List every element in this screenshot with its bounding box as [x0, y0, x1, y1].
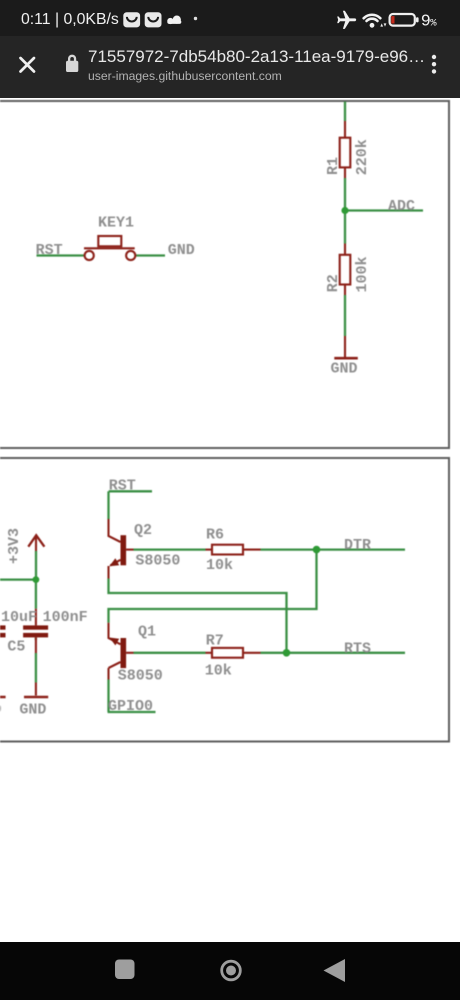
svg-text:R2: R2 [325, 274, 342, 292]
svg-text:Q2: Q2 [134, 522, 152, 539]
svg-text:KEY1: KEY1 [98, 215, 134, 232]
svg-text:+3V3: +3V3 [6, 528, 23, 564]
svg-text:10k: 10k [206, 557, 233, 574]
svg-text:GND: GND [331, 361, 358, 378]
svg-text:ADC: ADC [388, 198, 415, 215]
svg-text:DTR: DTR [344, 537, 371, 554]
svg-text:C5: C5 [7, 639, 25, 656]
svg-text:S8050: S8050 [135, 553, 180, 570]
svg-text:R7: R7 [206, 633, 224, 650]
svg-text:R1: R1 [325, 157, 342, 175]
svg-text:S8050: S8050 [118, 668, 163, 685]
svg-text:Q1: Q1 [138, 623, 156, 640]
svg-text:10uF: 10uF [1, 609, 37, 626]
svg-text:RTS: RTS [344, 640, 371, 657]
svg-text:220k: 220k [354, 139, 371, 175]
svg-text:10k: 10k [205, 662, 232, 679]
svg-text:GPIO0: GPIO0 [108, 698, 153, 715]
svg-text:100k: 100k [354, 256, 371, 292]
svg-text:GND: GND [0, 701, 2, 718]
svg-text:RST: RST [109, 478, 136, 495]
svg-text:100nF: 100nF [43, 609, 88, 626]
svg-text:GND: GND [168, 242, 195, 259]
svg-text:RST: RST [36, 242, 63, 259]
svg-text:GND: GND [19, 701, 46, 718]
svg-text:R6: R6 [206, 526, 224, 543]
